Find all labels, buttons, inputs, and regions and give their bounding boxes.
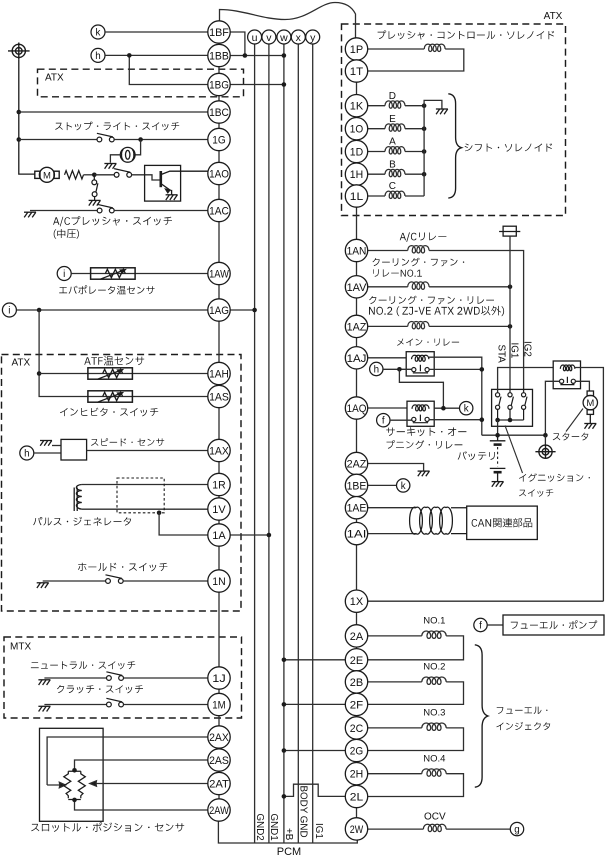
wire lamp to ground (110, 155, 120, 163)
svg-text:2H: 2H (350, 769, 363, 781)
shift solenoid coil E (385, 124, 405, 131)
wire junction to switch (94, 174, 114, 176)
PCM top harness curve (220, 3, 356, 39)
svg-text:1O: 1O (350, 124, 364, 136)
wire pin to injector NO.4 (368, 773, 422, 775)
A/C relay coil (408, 246, 429, 253)
svg-text:1AV: 1AV (347, 282, 367, 294)
connector circle g (OCV) (510, 822, 523, 835)
PCM pin 2A (345, 625, 367, 647)
ignition switch common bar (498, 419, 524, 421)
svg-text:ATX: ATX (544, 11, 563, 22)
junction fan2 on IG1 line (508, 324, 513, 329)
ignition switch pole 1 (496, 393, 502, 420)
svg-text:2F: 2F (350, 699, 364, 711)
wire neutral switch to 1J (124, 677, 208, 679)
battery feed bus (482, 434, 546, 436)
battery (490, 435, 506, 481)
PCM pin 1O (345, 118, 367, 140)
connector circle i (1AG) (2, 303, 16, 317)
PCM pin 1AJ (345, 347, 367, 369)
stop light switch (97, 133, 114, 142)
wire lamp drop (135, 140, 140, 155)
svg-text:2AX: 2AX (209, 732, 229, 744)
junction shift solenoid common A (422, 149, 427, 154)
wire pin to shift solenoid A (368, 151, 385, 153)
label circuit opening relay l2 (387, 440, 463, 449)
PCM pin 1AH (208, 362, 230, 384)
label cooling fan relay no1 l1 (373, 258, 465, 267)
PCM pin 2AT (208, 772, 230, 794)
wire gnd to clutch switch (44, 704, 106, 706)
clutch switch (106, 698, 123, 707)
svg-text:1M: 1M (212, 699, 225, 711)
label stop light switch (55, 122, 179, 131)
fuel pump box (503, 615, 604, 635)
PCM pin 1AO (208, 162, 230, 184)
PCM pin 1R (208, 473, 230, 495)
right pin chain wire 1X-2A (356, 612, 358, 635)
wire h branch to 1BG (129, 55, 208, 84)
junction ATF branch (37, 308, 42, 313)
wire 1P to coil (368, 48, 425, 50)
PCM pin 1AE (345, 497, 367, 519)
wire pulse gen to 1R (82, 484, 208, 486)
bus connector circle w (277, 30, 291, 44)
wire 2AS top tap (75, 760, 208, 770)
label cooling fan relay no1 l2 (373, 269, 422, 277)
ignition switch box (492, 389, 533, 426)
PCM pin 2H (345, 763, 367, 785)
wire switch to transistor box (132, 175, 160, 180)
junction 1BG on +B bus (282, 82, 287, 87)
PCM bottom line (218, 821, 357, 843)
svg-text:2E: 2E (350, 655, 363, 667)
body ground bolt symbol (top left) (8, 43, 30, 60)
bus line v (GND1) (268, 44, 270, 843)
connector circle h (1BB) (91, 48, 105, 62)
ground (shift solenoids) (436, 109, 448, 114)
right pin chain wire 2AZ-1AI (356, 474, 358, 533)
wire 1AJ to main relay coil (368, 357, 407, 359)
junction shield drain (157, 511, 162, 516)
PCM pin 1D (345, 140, 367, 162)
junction stop lamp tap (138, 137, 143, 142)
label A/C relay (400, 232, 447, 242)
wire 1AE to CAN (368, 507, 416, 509)
svg-text:1BE: 1BE (347, 480, 367, 492)
stop lamp bulb (120, 147, 135, 162)
label fuel injector l2 (496, 722, 550, 730)
wire body ground down (19, 59, 35, 174)
PCM pin 1P (345, 38, 367, 60)
connector circle k (1BF) (91, 25, 105, 39)
label ignition switch l2 (519, 489, 553, 497)
wire injector NO.4 wrap (368, 774, 464, 797)
svg-text:1AJ: 1AJ (347, 353, 367, 365)
starter relay coil (560, 365, 575, 371)
ground (battery) (492, 482, 504, 487)
wire 1AG to GND2 bus (230, 309, 254, 311)
fuel injector coil NO.3 (422, 723, 446, 730)
wire f to COR contact (390, 419, 412, 421)
PCM pin 1T (345, 60, 367, 82)
PCM pin 1AC (208, 199, 230, 221)
shield dashed box (pulse generator) (117, 478, 164, 513)
IG1 feed line (fuse down) (509, 236, 511, 392)
svg-text:M: M (586, 398, 594, 409)
junction COR contact out (480, 417, 485, 422)
wire starter relay contact down to ground sym (544, 435, 546, 445)
main relay coil (412, 355, 429, 361)
junction shift solenoid common D (422, 103, 427, 108)
PCM pin 1G (208, 128, 230, 150)
junction starter relay feed (543, 433, 548, 438)
wire resistor to junction (84, 174, 95, 176)
svg-text:1N: 1N (212, 576, 225, 588)
wire 2AW bottom tap (75, 800, 208, 810)
PCM pin 1A (208, 524, 230, 546)
svg-text:1AI: 1AI (347, 529, 367, 541)
wire pulse gen to 1V (82, 508, 208, 510)
wire 2AZ to ground (368, 464, 424, 471)
label main relay (397, 339, 459, 346)
PCM pin 1AQ (345, 397, 367, 419)
junction shift solenoid common B (422, 172, 427, 177)
PCM pin 1AS (208, 385, 230, 407)
ground (starter motor) (584, 424, 596, 429)
svg-text:1AX: 1AX (209, 445, 229, 457)
svg-text:NO.3: NO.3 (423, 708, 445, 719)
ground (hold switch) (37, 583, 49, 588)
svg-text:OCV: OCV (424, 811, 446, 822)
body ground bolt symbol (starter) (535, 445, 555, 458)
wire 2AT wiper (96, 783, 208, 785)
label shift solenoid (465, 143, 552, 151)
wire ign common down (497, 420, 499, 435)
wire to ATF sensor/1AH (39, 373, 208, 375)
wire injector NO.3 wrap (368, 728, 464, 751)
svg-text:1G: 1G (212, 134, 225, 146)
wire fan relay No.2 to IG1 line (429, 325, 510, 327)
PCM pin 2E (345, 649, 367, 671)
label cooling fan relay no2 l1 (369, 296, 494, 305)
wire 1AN to A/C relay coil (368, 250, 408, 252)
throttle position sensor box (40, 728, 104, 821)
PCM pin 2F (345, 693, 367, 715)
svg-text:2W: 2W (350, 824, 364, 836)
wire ground to A/C pressure switch (30, 210, 97, 212)
svg-text:2C: 2C (350, 723, 363, 735)
PCM pin 1M (208, 693, 230, 715)
label ignition switch l1 (519, 473, 590, 482)
svg-text:PCM: PCM (277, 846, 301, 858)
inhibitor switch sensor (88, 391, 132, 402)
right pin chain wire 2L-2W (356, 808, 358, 818)
PCM pin 2G (345, 739, 367, 761)
wire 1X to starter relay line (368, 600, 604, 602)
svg-text:1BB: 1BB (209, 50, 229, 62)
label evaporator temp sensor (59, 285, 154, 294)
label ATF temp sensor (84, 356, 144, 365)
wire COR coil out to k (434, 407, 460, 409)
PCM pin 1AV (345, 276, 367, 298)
junction 1BF/1BB (243, 53, 248, 58)
neutral switch (106, 672, 123, 681)
connector circle k (COR) (460, 402, 473, 415)
main relay box (406, 352, 434, 376)
right pin chain wire 1AQ-2AZ (356, 419, 358, 463)
junction 1BC tap (17, 110, 22, 115)
svg-text:NO.2: NO.2 (423, 662, 445, 673)
svg-text:2G: 2G (350, 745, 363, 757)
wire +B bus to 2G (284, 750, 345, 752)
svg-text:h: h (374, 365, 379, 376)
cooling fan relay No.1 coil (408, 282, 429, 289)
svg-text:2B: 2B (350, 677, 363, 689)
PCM pin 1AW (208, 262, 230, 284)
PCM pin 1AG (208, 299, 230, 321)
ground (speed sensor) (40, 441, 52, 446)
wire 1A to GND1 bus (230, 534, 269, 536)
junction main relay out (480, 367, 485, 372)
TPS potentiometer element (64, 771, 86, 799)
svg-text:GND2: GND2 (254, 814, 265, 841)
wire 1BF to 1BB joint (230, 32, 245, 56)
PCM pin 1AN (345, 239, 367, 261)
wire speed sensor to 1AX (87, 450, 208, 452)
svg-text:1K: 1K (350, 101, 364, 113)
PCM pin 1H (345, 163, 367, 185)
circuit opening relay box (407, 401, 434, 426)
label starter (553, 433, 589, 441)
wire pin to shift solenoid B (368, 173, 385, 175)
label hold switch (78, 563, 167, 572)
right pin chain wire 1AI-1X (356, 545, 358, 590)
MTX dashed box (4, 637, 242, 718)
wire solenoid D to common (405, 105, 424, 107)
svg-text:k: k (96, 28, 101, 39)
ground (neutral switch) (38, 680, 50, 685)
wire main relay contact out (429, 368, 482, 370)
svg-text:v: v (266, 32, 272, 44)
right pin chain wire 1AN-1AQ (356, 261, 358, 408)
wire pin to injector NO.1 (368, 635, 422, 637)
ground (2AZ) (418, 471, 430, 476)
wire starter relay contact left (545, 381, 559, 433)
motor M (A/C condenser fan) (35, 167, 59, 182)
svg-text:BODY GND: BODY GND (298, 786, 309, 838)
wire 1AZ to fan relay2 coil (368, 325, 408, 327)
connector circle h (speed sensor) (20, 446, 34, 460)
svg-text:f: f (479, 621, 482, 632)
PCM pin 1BC (208, 101, 230, 123)
starter pointer line (566, 409, 583, 432)
svg-text:1AC: 1AC (209, 205, 229, 217)
PCM pin 1AI (345, 522, 367, 544)
PCM pin 2L (345, 785, 367, 807)
wire 1BG to +B bus (230, 84, 284, 86)
svg-text:2AW: 2AW (209, 805, 229, 817)
junction COR coil/k (441, 406, 446, 411)
svg-text:IG1: IG1 (313, 823, 324, 839)
PCM pin 2W (345, 818, 367, 840)
svg-text:STA: STA (496, 345, 507, 364)
svg-text:1AE: 1AE (347, 503, 367, 515)
pressure switch (vertical, to ground) (92, 177, 98, 200)
junction 1BB on +B bus (282, 53, 287, 58)
wire solenoid B to common (405, 173, 424, 175)
PCM pin 2AX (208, 726, 230, 748)
PCM pin 1BG (208, 73, 230, 95)
PCM pin 1BE (345, 474, 367, 496)
wire hold switch to 1N (123, 580, 208, 582)
wire 1AI to CAN (368, 533, 416, 535)
wire OCV to g (446, 828, 510, 830)
svg-text:IG2: IG2 (521, 341, 532, 357)
wire solenoid A to common (405, 151, 424, 153)
starter relay contact (560, 377, 576, 385)
bus connector circle v (262, 30, 276, 44)
right pin chain wire 1L-1AN (356, 207, 358, 250)
svg-text:h: h (24, 449, 29, 460)
svg-text:2L: 2L (350, 791, 363, 803)
fuel injector coil NO.2 (422, 677, 446, 684)
wire pin to injector NO.2 (368, 681, 422, 683)
shift solenoid common wire (424, 100, 442, 196)
junction 2F on +B bus (282, 702, 287, 707)
svg-text:1A: 1A (212, 530, 226, 542)
ATX dashed box (left, AT section) (2, 355, 242, 612)
PCM pin 1K (345, 95, 367, 117)
junction battery top (495, 433, 500, 438)
svg-text:GND1: GND1 (268, 814, 279, 841)
wire h to 1BB (105, 54, 208, 56)
connector circle h (main relay) (370, 362, 383, 375)
label speed sensor (91, 438, 164, 446)
PCM pin 2C (345, 717, 367, 739)
wire gnd-line to stoplight switch (19, 139, 97, 141)
svg-text:1AH: 1AH (209, 368, 229, 380)
PCM pin 1L (345, 185, 367, 207)
bus line u (GND2) (254, 44, 256, 843)
junction 1A on GND1 (267, 533, 272, 538)
label A/C pressure switch (53, 216, 172, 226)
wire h to main relay contact (383, 368, 412, 370)
svg-text:1V: 1V (212, 504, 226, 516)
bus line x (BODY GND) (297, 44, 299, 843)
circuit opening relay coil (412, 405, 429, 411)
brace (fuel injector group) (475, 645, 488, 787)
wire h branch to COR coil node (399, 369, 443, 408)
wire injector NO.2 wrap (368, 682, 464, 705)
ATF temp sensor (88, 368, 132, 379)
svg-text:1J: 1J (212, 673, 225, 685)
wire 2W to OCV coil (368, 828, 424, 830)
connector circle i (1AW) (57, 267, 71, 281)
cooling fan relay No.2 coil (408, 322, 429, 329)
wire starter relay coil out (575, 368, 604, 602)
right pin chain wire 2A-2L (356, 647, 358, 796)
svg-text:2AZ: 2AZ (347, 458, 367, 470)
svg-text:MTX: MTX (10, 642, 31, 653)
wire k to 1BF (105, 31, 208, 33)
resistor (fan) (65, 171, 84, 179)
svg-text:1AW: 1AW (209, 268, 229, 280)
wire main relay coil out (429, 357, 482, 435)
wire coil wrap to 1T (368, 49, 464, 71)
junction fan1 on IG1 line (508, 285, 513, 290)
svg-text:NO.1: NO.1 (423, 616, 445, 627)
label (中圧) (54, 229, 79, 239)
svg-text:1H: 1H (350, 169, 363, 181)
shift solenoid coil B (385, 169, 405, 176)
PCM pin 1AZ (345, 315, 367, 337)
shift solenoid coil A (385, 147, 405, 154)
ground (clutch switch) (38, 706, 50, 711)
svg-text:f: f (382, 416, 385, 427)
ignition switch pointer line (505, 426, 523, 474)
ground (pressure switch) (89, 200, 101, 205)
PCM pin 2B (345, 671, 367, 693)
svg-text:1AQ: 1AQ (347, 403, 367, 415)
junction h branch (main relay) (397, 367, 402, 372)
svg-text:1X: 1X (350, 596, 364, 608)
svg-text:1L: 1L (350, 191, 363, 203)
junction 2G on +B bus (282, 748, 287, 753)
svg-text:k: k (401, 481, 406, 492)
wire +B bus to 2F (284, 703, 345, 705)
OCV coil (423, 824, 446, 831)
svg-text:2AS: 2AS (209, 755, 229, 767)
label throttle position sensor (31, 822, 184, 832)
wire i to 1AW (through sensor) (71, 273, 208, 275)
fuel injector coil NO.1 (422, 631, 446, 638)
wire starter relay contact right (575, 381, 589, 391)
wire 1AV to fan relay coil (368, 286, 408, 288)
fuel injector coil NO.4 (422, 769, 446, 776)
shift solenoid coil D (385, 101, 405, 108)
svg-text:1BG: 1BG (209, 79, 229, 91)
A/C pressure switch (97, 204, 114, 213)
bus connector circle x (291, 30, 305, 44)
wire pin to shift solenoid C (368, 195, 385, 197)
wire pin to injector NO.3 (368, 727, 422, 729)
wire ATF branch down (39, 310, 208, 397)
svg-text:1P: 1P (350, 44, 363, 56)
PCM pin 2AS (208, 749, 230, 771)
svg-text:2AT: 2AT (209, 778, 229, 790)
junction TPS bottom (72, 798, 77, 803)
right pin chain wire 1T-1L (356, 82, 358, 196)
junction ign pole2 common (508, 418, 513, 423)
ground (A/C pressure switch) (24, 212, 36, 217)
wire f to fuel pump box (487, 624, 503, 626)
wire A/C relay to IG2 line (429, 251, 523, 393)
connector circle f (COR) (377, 414, 390, 427)
wire h to speed sensor box (34, 452, 61, 454)
wire 1BE to k (368, 484, 397, 486)
svg-text:1BC: 1BC (209, 107, 229, 119)
wire COR contact out (429, 419, 482, 421)
bus connector circle y (306, 30, 320, 44)
CAN parts box (467, 506, 538, 539)
junction TPS top (72, 768, 77, 773)
svg-text:ATX: ATX (45, 73, 64, 84)
svg-text:y: y (310, 32, 316, 44)
svg-text:1AO: 1AO (209, 168, 229, 180)
junction h branch (127, 53, 132, 58)
